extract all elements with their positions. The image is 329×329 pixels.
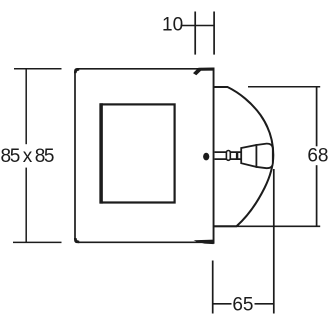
svg-text:10: 10 — [162, 15, 183, 36]
svg-text:68: 68 — [307, 146, 328, 167]
svg-text:85 x 85: 85 x 85 — [1, 146, 54, 167]
svg-text:65: 65 — [232, 294, 253, 315]
